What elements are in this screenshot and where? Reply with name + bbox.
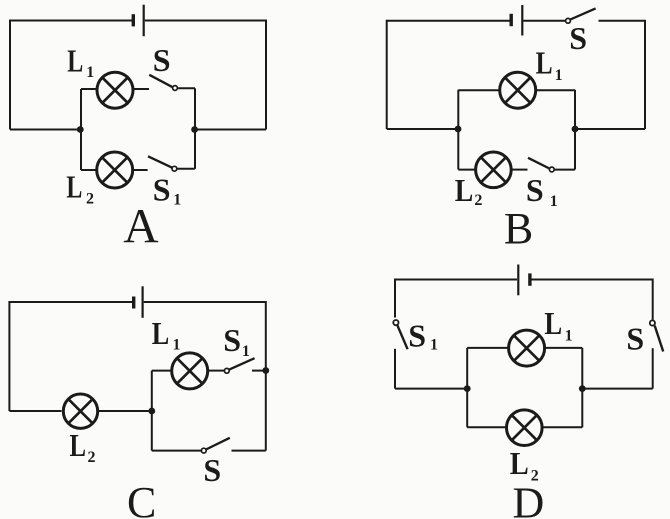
wire C bottom-branch left segment <box>152 450 202 452</box>
wire C top-branch middle stub <box>209 370 225 372</box>
svg-text:L: L <box>66 169 82 205</box>
wire B top from switch to corner <box>599 20 646 22</box>
switch S (circuit B) contact circle <box>566 18 571 23</box>
wire C top-right from battery to corner <box>144 301 266 303</box>
battery BT-A <box>133 5 143 37</box>
svg-text:S: S <box>223 322 241 358</box>
svg-text:L: L <box>455 172 474 208</box>
svg-text:1: 1 <box>565 328 573 345</box>
wire A middle-right horizontal <box>195 129 267 131</box>
wire D bottom-left horizontal <box>395 388 467 390</box>
wire A top-right from battery to corner <box>145 20 266 22</box>
battery BT-B <box>511 5 522 36</box>
wire C bottom-left horizontal to lamp <box>9 410 61 412</box>
svg-text:S: S <box>153 42 171 78</box>
switch S (circuit B) lever <box>570 8 595 19</box>
lamp L1 (circuit B) <box>500 72 536 108</box>
wire B bottom-branch left stub <box>458 169 475 171</box>
wire D bottom-right horizontal <box>582 388 652 390</box>
wire A top-branch right stub <box>177 87 195 89</box>
wire D top-branch left vertical <box>466 348 468 389</box>
switch S1 (circuit C) lever <box>229 358 254 369</box>
svg-text:D: D <box>513 479 545 519</box>
node A-left junction <box>77 126 84 133</box>
switch S (circuit A) contact circle <box>173 86 178 91</box>
switch S (circuit D) lever <box>655 326 664 352</box>
wire C bottom-branch right segment <box>232 450 266 452</box>
wire D bottom-branch left stub <box>467 426 507 428</box>
switch S1 (circuit A) lever <box>148 156 172 167</box>
wire D top-branch left stub <box>467 347 508 349</box>
svg-text:1: 1 <box>173 337 181 354</box>
switch S1 (circuit B) lever <box>528 158 549 169</box>
switch S (circuit C) contact circle <box>201 448 206 453</box>
svg-text:L: L <box>70 427 87 463</box>
lamp L2 (circuit A) <box>97 152 133 188</box>
wire D right vertical upper <box>652 279 654 320</box>
wire D right vertical lower <box>652 348 654 388</box>
wire B right inner vertical <box>574 90 576 170</box>
battery BT-C <box>134 286 143 318</box>
wire B middle-right horizontal <box>575 128 645 130</box>
switch S1 (circuit B) contact circle <box>549 167 554 172</box>
wire A right vertical <box>265 20 267 130</box>
svg-text:S: S <box>569 20 587 56</box>
wire B left inner vertical <box>457 90 459 170</box>
wire A bottom-branch left stub <box>81 169 97 171</box>
svg-text:1: 1 <box>86 64 94 81</box>
wire D bottom-branch right stub <box>542 426 583 428</box>
svg-text:2: 2 <box>86 191 94 208</box>
svg-text:1: 1 <box>555 67 563 84</box>
svg-text:A: A <box>123 198 159 253</box>
wire D top-right from battery to corner <box>531 279 653 281</box>
wire D bottom-branch left vertical <box>466 389 468 428</box>
wire B bottom-branch right stub <box>554 169 575 171</box>
lamp L1 (circuit A) <box>97 72 133 108</box>
svg-text:C: C <box>127 478 156 519</box>
wire D left vertical lower <box>394 349 396 389</box>
wire C top-branch left stub <box>152 370 171 372</box>
svg-text:2: 2 <box>88 449 96 466</box>
node B-left junction <box>455 126 462 133</box>
lamp L2 (circuit B) <box>476 152 512 188</box>
switch S1 (circuit D) contact circle <box>393 320 398 325</box>
wire A right branch vertical <box>194 88 196 169</box>
switch S1 (circuit C) contact circle <box>224 368 229 373</box>
node C-right junction <box>262 367 269 374</box>
switch S (circuit C) lever <box>206 438 230 450</box>
node D-right junction <box>579 385 586 392</box>
wire A bottom-branch middle stub <box>134 169 148 171</box>
switch S (circuit A) lever <box>149 75 172 87</box>
svg-text:S: S <box>526 172 544 208</box>
wire B middle-left horizontal <box>387 128 458 130</box>
svg-text:L: L <box>510 445 529 481</box>
lamp L1 (circuit D) <box>509 330 545 366</box>
wire A top-left from corner to battery <box>10 20 132 22</box>
svg-text:L: L <box>67 43 83 79</box>
wire D bottom-branch right vertical <box>581 389 583 428</box>
svg-text:1: 1 <box>173 192 181 209</box>
switch S1 (circuit D) lever <box>397 325 407 349</box>
lamp L2 (circuit C) <box>63 394 97 428</box>
wire C from lamp to junction <box>99 410 152 412</box>
wire B top-branch right stub <box>537 89 575 91</box>
svg-text:2: 2 <box>474 192 482 209</box>
wire B bottom-branch middle stub <box>512 169 528 171</box>
wire C middle vertical <box>151 371 153 451</box>
wire B left vertical <box>386 20 388 129</box>
switch S1 (circuit A) contact circle <box>172 166 177 171</box>
wire D top-left from corner to battery <box>395 279 517 281</box>
svg-text:S: S <box>626 320 644 356</box>
svg-text:L: L <box>544 305 562 341</box>
wire D top-branch right stub <box>545 347 582 349</box>
wire C right vertical <box>265 301 267 451</box>
svg-text:L: L <box>536 44 553 80</box>
svg-text:S: S <box>408 317 426 353</box>
battery BT-D <box>518 265 530 296</box>
wire B right vertical <box>644 20 646 129</box>
wire C top-left from corner to battery <box>9 301 132 303</box>
switch S (circuit D) contact circle <box>650 320 655 325</box>
lamp L1 (circuit C) <box>172 353 208 389</box>
wire A left vertical <box>9 20 11 130</box>
svg-text:S: S <box>203 452 221 488</box>
node A-right junction <box>191 126 198 133</box>
wire A top-branch middle stub <box>133 88 149 90</box>
node D-left junction <box>464 385 471 392</box>
svg-text:L: L <box>152 315 170 351</box>
wire A left branch vertical <box>80 89 82 170</box>
svg-text:B: B <box>504 204 533 253</box>
svg-text:1: 1 <box>430 337 438 354</box>
wire A middle-left horizontal <box>10 129 80 131</box>
svg-text:1: 1 <box>550 193 558 210</box>
wire C top-branch right stub <box>252 370 266 372</box>
lamp L2 (circuit D) <box>507 410 543 446</box>
svg-text:1: 1 <box>242 343 250 360</box>
wire B top-left from corner to battery <box>387 20 510 22</box>
node C-middle junction <box>148 408 155 415</box>
wire B top from battery to switch <box>523 20 565 22</box>
node B-right junction <box>572 126 579 133</box>
wire A top-branch left stub <box>81 88 97 90</box>
wire D top-branch right vertical <box>581 348 583 389</box>
wire C left vertical <box>8 301 10 411</box>
wire B top-branch left stub <box>458 89 499 91</box>
wire D left vertical upper <box>394 279 396 318</box>
wire A bottom-branch right stub <box>177 168 195 170</box>
